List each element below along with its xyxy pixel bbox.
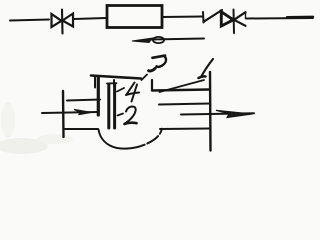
- outlet pipe top wall: [159, 104, 210, 105]
- valve V2 (bowtie, left wing solid): [221, 10, 245, 34]
- leader for 3: [142, 75, 148, 81]
- inlet centerline: [42, 112, 97, 113]
- body step: [151, 80, 153, 90]
- body shoulder: [152, 90, 209, 91]
- wire: filter to valve V2: [163, 16, 202, 19]
- bottom bowl arc: [99, 129, 162, 149]
- valve V1 (shut-off valve bowtie): [52, 10, 74, 34]
- top cover (part 3): [91, 76, 141, 79]
- wire: inlet line top-left: [10, 20, 49, 21]
- leader for 2: [118, 114, 124, 116]
- inlet pipe top wall: [67, 100, 100, 101]
- filter cassette (part 2/4): [107, 83, 117, 128]
- right flange: [209, 72, 212, 151]
- inlet flow arrowhead: [74, 110, 91, 115]
- outlet pipe bottom wall: [160, 128, 210, 131]
- leader for 1: [160, 80, 205, 92]
- flange tick before valve V2: [202, 12, 205, 23]
- cover tick left: [94, 78, 96, 88]
- leader for 4: [117, 88, 124, 92]
- label 2: [125, 107, 137, 125]
- inlet pipe bottom wall: [65, 128, 98, 130]
- label 1: [199, 59, 214, 78]
- filter F1 (rectangle symbol): [107, 6, 162, 28]
- wire: valve V2 to right edge: [246, 17, 313, 20]
- diagonal riser to valve V2: [204, 10, 223, 22]
- flow arrow (leftward) under filter: [132, 37, 204, 43]
- label 3: [149, 56, 166, 71]
- partition wall: [97, 77, 100, 115]
- cover tick right: [113, 80, 115, 86]
- outlet arrow: [181, 110, 254, 117]
- wire: valve V1 to filter: [74, 18, 106, 19]
- label 4: [126, 83, 139, 102]
- left flange: [62, 91, 65, 137]
